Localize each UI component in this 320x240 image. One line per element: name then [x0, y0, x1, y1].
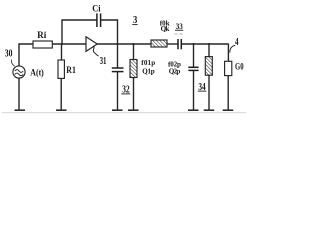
wire resonator2 bottom	[208, 75, 210, 109]
wire R1 branch top	[61, 44, 63, 60]
wire right end down	[227, 44, 229, 62]
svg-text:Ci: Ci	[92, 3, 101, 13]
resonator Qk (series, hatched)	[151, 40, 167, 47]
svg-text:R1: R1	[66, 65, 76, 75]
svg-text:4: 4	[235, 37, 239, 48]
leader 4	[230, 45, 235, 52]
wire cap 33 to right end	[181, 43, 228, 45]
wire amp output	[97, 43, 151, 45]
svg-text:f01p: f01p	[141, 59, 155, 67]
underline 32	[121, 93, 130, 95]
wire resonator1 bottom	[133, 78, 135, 110]
wire source top	[19, 44, 33, 66]
op-amp 31 (amplifier triangle)	[86, 37, 97, 52]
wire feedback right vertical	[117, 20, 119, 45]
svg-text:G0: G0	[235, 62, 244, 72]
ground (cap1)	[112, 109, 123, 111]
svg-text:A(t): A(t)	[30, 67, 44, 77]
svg-text:30: 30	[5, 49, 13, 60]
underline 33	[175, 29, 183, 31]
wire G0 bottom	[227, 76, 229, 110]
resistor Ri	[33, 41, 52, 48]
wire feedback top right	[101, 19, 118, 21]
underline 34	[198, 90, 207, 92]
node (cap2 junction)	[192, 43, 194, 45]
noise dashes under 33	[175, 33, 178, 35]
wire cap2 bottom	[193, 70, 195, 109]
wire R1 bottom	[60, 78, 62, 109]
node (feedback/R1 junction)	[61, 43, 63, 45]
ground (source)	[15, 109, 26, 111]
capacitor (circuit 32)	[112, 67, 124, 69]
svg-text:Qk: Qk	[161, 25, 170, 33]
wire cap2 top	[193, 44, 195, 67]
ground (R1)	[56, 109, 67, 111]
svg-text:33: 33	[176, 21, 183, 31]
resistor R1	[58, 60, 64, 78]
svg-text:Q2p: Q2p	[169, 67, 181, 75]
node (resonator2 junction)	[208, 43, 210, 45]
capacitor (circuit 34)	[188, 66, 198, 68]
source waves	[15, 70, 23, 73]
svg-text:31: 31	[100, 56, 107, 67]
output load G0	[225, 61, 232, 75]
wire Ri to amp input	[52, 43, 86, 45]
wire cap1 branch top	[117, 44, 119, 68]
wire source bottom	[18, 78, 20, 110]
leader 30	[11, 60, 14, 67]
wire series box to cap 33	[167, 43, 178, 45]
resonator Q2p (hatched)	[205, 57, 212, 76]
ground (resonator2)	[204, 109, 215, 111]
leader 31	[93, 46, 98, 56]
node (cap1 junction)	[116, 43, 118, 45]
source 30 A(t) circle	[13, 66, 25, 78]
ground (resonator1)	[128, 109, 139, 111]
wire feedback top left	[62, 19, 97, 21]
svg-text:Ri: Ri	[37, 30, 47, 40]
capacitor Ci	[96, 13, 98, 27]
wire feedback left vertical + node	[61, 20, 63, 45]
capacitor 33	[177, 39, 179, 49]
node (resonator1 junction)	[132, 43, 134, 45]
resonator Q1p (hatched)	[130, 60, 137, 78]
wire: bottom common rail (faint)	[2, 112, 246, 114]
wire cap1 branch bottom	[117, 72, 119, 110]
underline 3	[132, 24, 137, 26]
wire resonator1 top	[133, 44, 135, 60]
ground (G0)	[223, 109, 234, 111]
svg-text:Q1p: Q1p	[142, 67, 154, 75]
wire resonator2 top	[208, 44, 210, 57]
ground (cap2)	[188, 109, 199, 111]
